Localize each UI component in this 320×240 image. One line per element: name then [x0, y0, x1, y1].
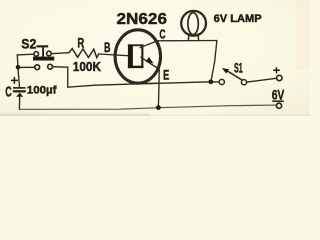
- lamp I1 filament loop: [188, 13, 198, 35]
- node: junction dot collector-branch on wire1: [208, 79, 213, 84]
- wire: left vertical from S2 top wire down to capacitor top plate: [17, 55, 19, 87]
- transistor circle: [115, 30, 160, 83]
- switch S2 bar (bridging plate): [33, 57, 54, 61]
- switch S2 top contact right: [47, 51, 52, 56]
- battery + polarity mark: [273, 67, 280, 73]
- switch S2 bottom contact left: [35, 65, 40, 70]
- switch S1 right contact: [241, 80, 246, 85]
- switch S1 blade arrowhead: [222, 68, 229, 74]
- capacitor C bottom lead arrow: [16, 93, 23, 97]
- wire: S1 to + battery terminal: [247, 78, 277, 82]
- battery + terminal circle: [277, 75, 282, 80]
- svg-text:6V: 6V: [272, 87, 285, 103]
- wire: from lamp right corner down to wire1 junction: [211, 41, 217, 82]
- transistor Q1 2N626 base bar: [128, 44, 144, 68]
- wire: emitter node to S1 (wire1): [146, 82, 220, 84]
- wire: resistor to base bar: [99, 54, 128, 56]
- svg-text:B: B: [104, 39, 111, 55]
- capacitor C top plate: [14, 87, 25, 89]
- wire: S2 bottom row right segment, down and across to emitter vertical: [53, 67, 159, 88]
- svg-text:6V LAMP: 6V LAMP: [214, 13, 262, 25]
- transistor emitter lead diagonal: [141, 57, 159, 69]
- paper background: [0, 0, 310, 116]
- switch S1 blade: [228, 71, 243, 80]
- capacitor + polarity mark: [11, 77, 18, 84]
- switch S1 left contact: [219, 79, 224, 84]
- svg-text:S2: S2: [21, 36, 36, 52]
- svg-text:C: C: [5, 84, 12, 100]
- svg-text:S1: S1: [234, 60, 243, 76]
- switch S2 plunger cap: [36, 45, 48, 47]
- capacitor C bottom plate: [14, 90, 25, 92]
- wire: S2 top right to resistor: [51, 53, 69, 54]
- wire: bottom rail: [19, 105, 275, 109]
- switch S2 bottom contact right: [48, 64, 53, 69]
- battery - terminal circle: [276, 103, 281, 108]
- wire: emitter vertical down to bottom rail: [157, 69, 160, 107]
- wire: S2 top-left stub: [17, 53, 34, 56]
- wire: capacitor bottom lead to rail: [18, 96, 20, 110]
- svg-text:R: R: [77, 36, 84, 52]
- wire: S2 bottom row left segment: [18, 66, 35, 68]
- lamp I1 legs: [188, 34, 198, 41]
- transistor collector lead diagonal and wire to lamp: [140, 41, 217, 48]
- node: junction dot on bottom rail: [156, 105, 161, 110]
- svg-text:E: E: [163, 67, 169, 83]
- transistor emitter arrowhead: [146, 57, 154, 64]
- resistor R zigzag: [69, 49, 99, 58]
- switch S2 top contact left: [34, 52, 39, 57]
- svg-text:C: C: [159, 26, 166, 41]
- battery minus bar: [273, 100, 283, 102]
- svg-text:100K: 100K: [73, 60, 101, 74]
- node: junction dot on left vertical: [16, 65, 21, 70]
- svg-text:100µf: 100µf: [27, 85, 57, 97]
- switch S2 plunger stem: [42, 47, 44, 57]
- lamp I1 circle: [181, 11, 206, 36]
